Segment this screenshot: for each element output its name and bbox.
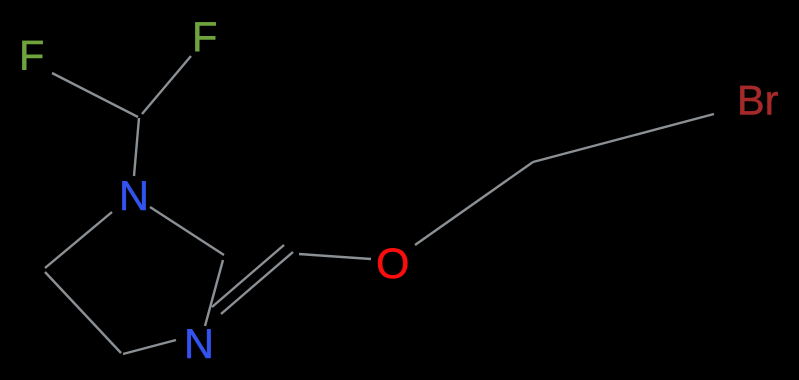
- bond F2-C(HF2): [142, 56, 191, 114]
- bond F1-C(HF2): [52, 73, 138, 117]
- bond C(HF2)-N1: [134, 118, 139, 176]
- bond CH2-Br: [533, 114, 714, 162]
- svg-text:N: N: [119, 172, 149, 219]
- double bond N3=C inner line: [212, 245, 284, 307]
- bond C-O: [299, 254, 371, 259]
- bond C4-N3 ring bottom: [123, 340, 176, 354]
- svg-text:F: F: [192, 13, 217, 60]
- svg-text:Br: Br: [737, 77, 779, 124]
- svg-text:O: O: [376, 240, 409, 288]
- svg-text:N: N: [184, 320, 214, 367]
- bond O-CH2: [415, 162, 533, 245]
- svg-text:F: F: [19, 32, 44, 79]
- double bond N3=C outer line: [221, 252, 293, 314]
- bond C5-C4 ring left lower: [45, 272, 121, 353]
- bond N1-C5 ring left upper: [45, 212, 112, 268]
- bond C2-N3 ring right lower: [205, 260, 223, 326]
- bond N1-C2 ring right upper: [150, 207, 224, 255]
